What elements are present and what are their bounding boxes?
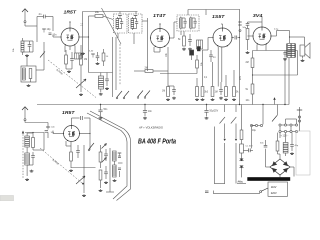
bus wire (188, 9, 240, 11)
resistor R7 (196, 55, 203, 74)
svg-text:1R5T: 1R5T (64, 10, 78, 15)
potentiometer P2 (76, 176, 85, 184)
ground (224, 98, 228, 101)
svg-text:50: 50 (106, 56, 109, 58)
resistor R11 (225, 75, 228, 97)
trimmer arrow 1 (102, 144, 107, 149)
wire (224, 124, 226, 142)
switch S1d (144, 91, 150, 99)
capacitor C16 (243, 148, 253, 152)
potentiometer P1 (76, 79, 86, 88)
capacitor C10 (283, 51, 286, 58)
svg-text:40µ: 40µ (295, 145, 299, 147)
wire (53, 131, 64, 134)
resistor 20k (89, 11, 114, 20)
svg-text:50k: 50k (13, 48, 15, 52)
resistor R9 (196, 78, 199, 97)
label 01 (204, 77, 208, 79)
wire (100, 89, 102, 92)
svg-text:4n: 4n (39, 12, 42, 16)
wire (290, 167, 294, 177)
svg-text:+ 12V -: + 12V - (281, 134, 289, 137)
label 220V (271, 192, 277, 195)
wire (248, 35, 254, 37)
ground (166, 98, 170, 101)
capacitor 10n (49, 33, 58, 37)
ground (67, 70, 71, 73)
switch S1c (137, 91, 143, 99)
tube V1 1R5T label (64, 10, 78, 15)
gang link 2 (102, 8, 122, 44)
wire (27, 133, 33, 136)
svg-text:10µ: 10µ (252, 130, 257, 132)
wire (26, 147, 28, 153)
wire (82, 12, 84, 59)
capacitor black C8 (190, 50, 194, 55)
wire (80, 133, 91, 134)
capacitor 50n bus (98, 105, 108, 117)
trimmer C (42, 28, 51, 33)
wire (118, 33, 134, 44)
capacitor 40u (290, 133, 299, 151)
tick (205, 191, 209, 193)
capacitor C1 (28, 41, 32, 52)
osc coil L3 (99, 73, 104, 90)
wire (83, 11, 138, 13)
svg-text:CL 51V: CL 51V (246, 146, 254, 148)
capacitor C11 (143, 105, 153, 117)
wire (284, 58, 286, 105)
pilot lamp arrow (273, 98, 276, 105)
capacitor C14 (104, 149, 108, 161)
ground (182, 48, 186, 51)
svg-text:5k: 5k (246, 89, 249, 91)
svg-text:1S5T: 1S5T (212, 14, 226, 19)
wire (203, 38, 214, 51)
wire (52, 17, 54, 32)
svg-text:AF + VOLKSRADIO: AF + VOLKSRADIO (138, 126, 163, 130)
svg-text:50n: 50n (104, 109, 109, 111)
wire (66, 66, 72, 69)
wire (278, 151, 286, 159)
wire (221, 24, 223, 28)
ground (301, 59, 305, 62)
capacitor C12b (31, 152, 35, 161)
wire (253, 50, 298, 52)
ground (105, 87, 109, 90)
svg-text:1,0n: 1,0n (51, 127, 56, 129)
grid wire (248, 17, 263, 28)
resistor R14 (246, 51, 254, 76)
wire (297, 51, 299, 76)
label vert 01 (82, 22, 84, 26)
resistor R5 (162, 87, 169, 97)
wire (202, 50, 204, 87)
ground (104, 181, 108, 184)
wire (142, 20, 148, 22)
gang vertical (112, 37, 114, 97)
ground (219, 97, 223, 100)
ground (69, 169, 73, 172)
trimmer T2 (89, 51, 95, 58)
tube V3 1S5T (212, 27, 232, 47)
tuning gang link (48, 60, 96, 98)
resistor R2 (65, 50, 68, 69)
ground (27, 84, 31, 87)
battery BT1 (296, 131, 310, 175)
electrolytic CL (240, 140, 254, 154)
wire (36, 42, 44, 70)
ground (188, 48, 192, 51)
tube V4 3V4 label (253, 13, 263, 18)
osc coil L7 (113, 151, 122, 161)
svg-text:1n: 1n (213, 57, 216, 59)
wire (191, 55, 193, 60)
rod coil L6 (25, 153, 30, 165)
capacitor C18 (105, 73, 109, 87)
wire (241, 168, 243, 178)
wire (83, 145, 85, 193)
capacitor C12 (32, 133, 35, 150)
wire (224, 143, 226, 184)
capacitor C5 (168, 86, 176, 95)
svg-text:90V: 90V (240, 75, 242, 80)
mains box (268, 182, 288, 196)
ground (211, 98, 215, 101)
battery lead (297, 107, 302, 131)
wire (88, 16, 90, 37)
wire (118, 162, 123, 164)
resistor 2M2 (134, 68, 168, 73)
wire (114, 161, 116, 165)
ground (113, 179, 117, 182)
wire (241, 153, 243, 159)
electrolytic 50u (204, 105, 218, 117)
svg-text:110V: 110V (271, 186, 277, 189)
title BA 408 F Porta (138, 137, 176, 146)
battery bar (248, 177, 291, 180)
resistor R18 (99, 170, 102, 188)
svg-text:BA 408 F Porta: BA 408 F Porta (138, 137, 176, 146)
capacitor C9 (219, 82, 223, 95)
bus wire (253, 74, 298, 76)
ground (99, 93, 103, 96)
ground (205, 117, 209, 120)
ground (25, 178, 29, 181)
wire (262, 105, 264, 123)
ground (81, 52, 85, 55)
wire (170, 22, 178, 38)
wire (147, 18, 149, 71)
rod coil L5 (25, 136, 30, 147)
switch S5a (220, 105, 226, 124)
supply bus (37, 104, 289, 105)
ground (246, 51, 250, 54)
svg-text:1M: 1M (162, 91, 165, 93)
svg-text:10n: 10n (246, 100, 251, 102)
svg-text:0,1: 0,1 (204, 77, 208, 79)
plate cap (235, 36, 237, 40)
wire (214, 127, 224, 184)
wire (71, 167, 96, 169)
resistor R16 (70, 142, 73, 169)
wire (25, 122, 48, 124)
wire (120, 12, 136, 15)
ground (30, 170, 34, 173)
wire (66, 141, 71, 146)
wire (36, 17, 38, 43)
tube V1 1R5T (60, 27, 79, 46)
wire (65, 46, 75, 54)
antenna A2 (22, 107, 28, 123)
trimmer C2 (46, 123, 56, 130)
ground (232, 98, 236, 101)
subtitle (138, 126, 163, 130)
speaker LS (300, 43, 310, 59)
svg-text:2x500p: 2x500p (55, 68, 64, 76)
routed wire pair (87, 111, 131, 201)
ground (25, 54, 29, 57)
wire (106, 148, 114, 192)
ground (96, 62, 100, 65)
resistor R20 (240, 130, 243, 140)
svg-text:Akku: Akku (238, 181, 244, 184)
resistor R10 (211, 62, 218, 97)
ground (172, 97, 176, 100)
switch S1b (123, 91, 129, 99)
IF can T2 (129, 14, 143, 33)
svg-text:2M: 2M (246, 62, 249, 64)
switch S0 (40, 52, 45, 58)
speaker feed (289, 37, 305, 45)
diode D1 (240, 159, 244, 161)
terminal marks (238, 22, 241, 32)
switch S2 (88, 143, 94, 151)
svg-text:1T4T: 1T4T (153, 13, 167, 18)
diode D2 (240, 166, 244, 168)
wire (33, 133, 44, 151)
resistor R15 (246, 84, 254, 94)
bottom rail (214, 191, 261, 194)
wire (266, 166, 271, 168)
wire (288, 51, 290, 56)
ground (201, 98, 205, 101)
svg-text:2M: 2M (145, 68, 148, 70)
label vert 10k (166, 52, 168, 57)
svg-text:3k3: 3k3 (204, 92, 208, 94)
gang vertical 2 (115, 37, 117, 90)
ground (99, 117, 103, 120)
wire (154, 47, 160, 52)
capacitor C15 (104, 166, 108, 179)
wire (235, 124, 237, 142)
wire (285, 133, 287, 143)
wire (265, 149, 267, 167)
electrolytic C7 (197, 40, 203, 51)
wire (218, 47, 222, 87)
tube V2 1T4T (150, 28, 170, 48)
wire (241, 105, 243, 131)
wire (80, 80, 82, 92)
capacitor 50n a (260, 140, 267, 147)
tube V5 1R5T (63, 125, 80, 142)
ground (143, 117, 147, 120)
wire (252, 94, 254, 105)
IF can T3 (177, 15, 199, 31)
svg-text:1M: 1M (215, 92, 218, 94)
capacitor 1n (209, 50, 216, 62)
wire (252, 68, 254, 85)
svg-text:1M: 1M (84, 59, 87, 61)
wire (279, 175, 281, 177)
svg-text:5k: 5k (178, 39, 181, 41)
resistor R17 (99, 145, 102, 168)
label 10n (246, 100, 251, 102)
wire (80, 45, 82, 80)
wire (167, 47, 169, 87)
resistor R3 (80, 55, 88, 65)
switch S3 (272, 105, 278, 122)
capacitor C17 (96, 52, 100, 61)
wire (160, 73, 197, 75)
resistor R6 (178, 31, 185, 46)
tube V2 1T4T label (153, 13, 167, 18)
svg-text:0,1µ: 0,1µ (274, 28, 279, 30)
ground (79, 93, 83, 96)
wire (27, 161, 33, 176)
IF can T1 (114, 14, 128, 33)
wire (26, 57, 28, 67)
ground (283, 58, 287, 61)
wire (232, 37, 240, 38)
capacitor C6 (188, 34, 192, 46)
wire (88, 37, 90, 73)
svg-text:10p: 10p (47, 28, 52, 31)
wire (72, 118, 91, 126)
mains lever (261, 188, 268, 191)
svg-text:3-30: 3-30 (89, 51, 94, 53)
svg-text:220V: 220V (271, 192, 277, 195)
ferrite rod (22, 131, 24, 179)
resistor R13 (243, 24, 250, 51)
label 01u (274, 28, 279, 30)
svg-text:5k: 5k (236, 92, 239, 94)
wire (159, 23, 160, 28)
grid cap (81, 116, 83, 120)
wire (251, 127, 253, 149)
label vert 90V (240, 75, 242, 80)
wire (288, 58, 290, 105)
wire (53, 35, 61, 38)
wire (25, 25, 37, 27)
osc coil L8 (113, 165, 122, 177)
output transformer T4 (287, 44, 296, 58)
bridge B1 (270, 159, 290, 175)
gang link 3 (40, 148, 84, 185)
wire (69, 21, 70, 28)
wire (279, 133, 281, 138)
coil box L2 (21, 66, 36, 82)
choke F1 (75, 53, 82, 59)
wire (89, 118, 91, 150)
resistor R21 (102, 49, 109, 66)
tube V5 1R5T label (62, 110, 76, 115)
label Akku (237, 181, 246, 184)
ground (99, 189, 103, 192)
resistor R19 (276, 133, 279, 151)
wire (257, 44, 266, 51)
B+ wire (239, 10, 241, 105)
coil L1 (21, 38, 24, 55)
resistor R8 (201, 87, 209, 97)
antenna A1 (22, 9, 28, 26)
mains switch (260, 191, 262, 193)
wire (23, 41, 34, 52)
capacitor 10n b (45, 131, 55, 139)
tube V3 1S5T label (212, 14, 226, 19)
capacitor C2 (70, 52, 74, 66)
wire (25, 132, 44, 133)
svg-text:50n: 50n (260, 143, 264, 145)
wire (205, 10, 207, 16)
svg-text:50µ/25V: 50µ/25V (210, 111, 219, 113)
wire (89, 72, 113, 74)
wire (180, 31, 182, 35)
capacitor C13 (76, 145, 80, 158)
resistor R12 (233, 70, 240, 97)
wire (79, 36, 89, 37)
label vert 50k (13, 48, 15, 52)
ground (82, 194, 86, 197)
switch S5b (231, 105, 237, 124)
capacitor 4n (37, 12, 53, 18)
scan stamp (0, 196, 14, 202)
svg-text:3V4: 3V4 (253, 13, 263, 18)
contact row A (250, 122, 263, 132)
tube V4 3V4 (252, 26, 271, 45)
dashed vertical (119, 44, 121, 85)
ground (195, 98, 199, 101)
plate wire (271, 31, 290, 44)
label 120V (271, 186, 277, 189)
ground (290, 152, 294, 155)
svg-text:1R5T: 1R5T (62, 110, 76, 115)
contact grid (279, 119, 298, 133)
label 12V (281, 134, 289, 137)
wire (187, 10, 189, 16)
wire (235, 143, 237, 184)
switch S1a (116, 91, 122, 99)
coil L9 (283, 143, 288, 154)
svg-text:10n: 10n (148, 111, 153, 113)
svg-text:2x500p: 2x500p (51, 158, 60, 166)
trimmer arrow 2 (102, 158, 107, 163)
